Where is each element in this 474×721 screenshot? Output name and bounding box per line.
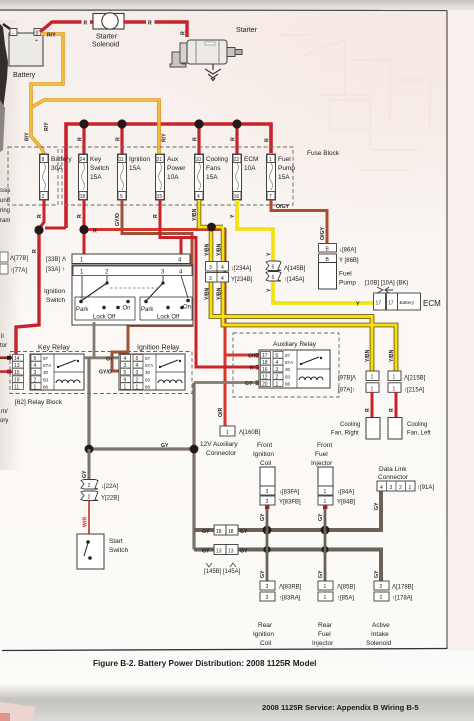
svg-text:Solenoid: Solenoid (366, 640, 392, 647)
svg-text:GY: GY (202, 529, 210, 535)
wire GY key relay 87 to ignition relay pin4 (84, 356, 119, 359)
svg-text:3: 3 (209, 276, 212, 282)
inline connectors 145B 145A hex (266, 261, 281, 271)
connectors 215B 215A (388, 371, 401, 381)
svg-text:21: 21 (157, 157, 163, 163)
svg-text:24: 24 (80, 157, 86, 163)
svg-text:Rear: Rear (258, 622, 273, 629)
svg-text:Fuse Block: Fuse Block (307, 150, 340, 157)
fuse F3 ignition 15A (118, 154, 151, 200)
wire GY down to 22 connector (88, 449, 91, 480)
fuel pump (319, 263, 337, 290)
svg-text:50: 50 (43, 378, 49, 383)
svg-text:Lock Off: Lock Off (157, 315, 180, 321)
svg-text:15: 15 (157, 194, 163, 200)
ignition switch left section (75, 276, 135, 321)
ignition switch linkage dashed (110, 287, 160, 289)
svg-text:ring: ring (0, 208, 10, 214)
svg-text:22: 22 (234, 157, 240, 163)
svg-text:18: 18 (80, 194, 86, 200)
svg-text:Battery: Battery (13, 72, 36, 79)
wire R key fuse output (83, 200, 86, 255)
left edge ghost text (0, 188, 10, 424)
svg-text:R: R (153, 214, 159, 218)
svg-text:GY: GY (82, 470, 88, 478)
svg-text:Λ[77B]: Λ[77B] (10, 256, 28, 262)
svg-text:O/GY: O/GY (320, 226, 326, 240)
svg-text:↑[145A]: ↑[145A] (284, 277, 305, 283)
svg-text:Λ[83RB]: Λ[83RB] (279, 585, 302, 591)
svg-text:3: 3 (136, 370, 139, 376)
svg-text:87A: 87A (285, 360, 294, 365)
connector 145B 145A pins 18 (202, 525, 248, 535)
relay block dashed box (10, 352, 192, 394)
svg-text:Key Relay: Key Relay (38, 345, 70, 352)
svg-text:R: R (37, 214, 43, 218)
wire R/BK into key relay pin14 (0, 356, 13, 359)
junction dot cooling wire (207, 223, 216, 232)
svg-text:Front: Front (317, 442, 332, 449)
fuse block dashed box battery (8, 147, 58, 205)
inline connectors 22A 22B hex (81, 480, 98, 490)
svg-text:30A: 30A (51, 165, 63, 172)
svg-text:Ignition: Ignition (44, 288, 65, 295)
svg-text:4: 4 (136, 363, 139, 369)
wire R battery to solenoid (40, 22, 93, 32)
svg-text:14: 14 (14, 356, 20, 362)
right page edge pink (448, 10, 474, 650)
svg-text:Y: Y (267, 252, 273, 256)
fuse F6 ecm 10A (233, 154, 259, 200)
svg-text:Intake: Intake (371, 631, 389, 638)
junction dots bus A (263, 526, 272, 535)
svg-text:und: und (0, 198, 10, 204)
svg-text:Switch: Switch (46, 297, 66, 304)
svg-text:Lock Off: Lock Off (93, 315, 116, 321)
svg-text:16: 16 (262, 367, 268, 373)
svg-text:87: 87 (285, 353, 291, 358)
svg-text:Ignition Relay: Ignition Relay (137, 345, 180, 352)
svg-text:Fuel: Fuel (318, 631, 331, 638)
svg-text:1: 1 (324, 499, 327, 505)
svg-text:Battery: Battery (51, 156, 72, 163)
svg-text:Y/BN: Y/BN (217, 287, 223, 300)
svg-text:2008 1125R Service: Appendix: 2008 1125R Service: Appendix B Wiring B-… (262, 703, 419, 712)
svg-text:Y[22B]: Y[22B] (101, 496, 119, 502)
key relay (13, 354, 85, 391)
svg-text:87A: 87A (43, 363, 52, 368)
svg-text:↑[85A]: ↑[85A] (337, 596, 354, 602)
svg-text:2: 2 (34, 378, 37, 384)
svg-text:Λ: Λ (62, 257, 66, 263)
svg-text:17: 17 (262, 353, 268, 359)
svg-text:9: 9 (124, 378, 127, 384)
wire GY/O ignition fuse to ignition relay (112, 200, 192, 371)
auxiliary relay (259, 350, 330, 388)
svg-text:GY: GY (240, 549, 248, 555)
svg-text:[10B] [10A] (BK): [10B] [10A] (BK) (365, 281, 408, 287)
svg-text:R/Y: R/Y (162, 133, 168, 142)
svg-text:[97A]↑: [97A]↑ (338, 387, 355, 393)
svg-text:Cooling: Cooling (407, 422, 427, 428)
svg-text:6: 6 (272, 265, 275, 271)
footer gradient band (0, 0, 1, 1)
svg-text:↓[86A]: ↓[86A] (339, 248, 356, 254)
svg-text:1: 1 (371, 386, 374, 392)
svg-text:5: 5 (120, 194, 123, 200)
svg-text:1: 1 (324, 584, 327, 590)
wire GY drop to rear ignition coil (266, 530, 269, 581)
svg-text:16: 16 (234, 194, 240, 200)
wire R aux fuse to 33B pin4 and auxiliary relay pin16 (160, 200, 259, 367)
fuse F5 cooling fans 15A (195, 154, 229, 200)
wire R/Y overlay crossing bus (157, 100, 161, 153)
svg-text:Ignition: Ignition (253, 631, 274, 638)
svg-text:R/Y: R/Y (25, 132, 31, 141)
fuse F4 aux power 10A (156, 154, 187, 200)
svg-text:Coil: Coil (260, 460, 272, 467)
svg-text:[33A]: [33A] (46, 267, 60, 273)
cooling fan left box (388, 418, 402, 440)
svg-text:Connector: Connector (206, 450, 237, 457)
svg-text:18: 18 (262, 360, 268, 366)
svg-text:19: 19 (14, 378, 20, 384)
svg-text:4: 4 (124, 356, 127, 362)
wire bus tie down to battery fuse junction (45, 227, 66, 230)
fuel pump connector 86A 86B (319, 244, 337, 253)
svg-text:Y/BN: Y/BN (205, 243, 211, 256)
svg-text:↑[83RA]: ↑[83RA] (279, 596, 301, 602)
svg-text:R: R (78, 137, 84, 141)
svg-text:Y[234B]: Y[234B] (231, 277, 253, 283)
svg-text:3: 3 (34, 370, 37, 376)
svg-text:On: On (123, 306, 131, 312)
svg-text:86: 86 (285, 382, 291, 387)
svg-text:18: 18 (216, 529, 222, 535)
wire O/R 12V aux connector (220, 426, 235, 436)
svg-text:R: R (93, 229, 97, 235)
svg-text:Figure B-2. Battery Power Dist: Figure B-2. Battery Power Distribution: … (93, 659, 316, 668)
svg-text:ory: ory (0, 418, 8, 424)
svg-text:ssis: ssis (0, 188, 10, 194)
svg-text:10A: 10A (167, 174, 179, 181)
diagram border right (446, 11, 448, 650)
svg-text:Ignition: Ignition (253, 451, 274, 458)
svg-text:↑: ↑ (62, 267, 65, 273)
svg-text:1: 1 (324, 595, 327, 601)
ghost bleedthrough marks (280, 35, 430, 170)
svg-text:R: R (231, 137, 237, 141)
rear fuel injector (318, 581, 333, 590)
svg-text:Injector: Injector (312, 640, 334, 647)
fuse F1 battery 30A (40, 154, 73, 200)
wire Y/BN pair below 234 connector to cooling fan connectors (211, 281, 396, 371)
svg-text:Y[83FB]: Y[83FB] (279, 500, 301, 506)
svg-text:86: 86 (145, 385, 151, 390)
svg-text:20: 20 (262, 382, 268, 388)
active intake solenoid (374, 581, 389, 590)
svg-text:↑[215A]: ↑[215A] (404, 387, 425, 393)
starter solenoid (93, 14, 124, 30)
svg-text:R/Y: R/Y (44, 122, 50, 131)
wire GY main vertical to 145 connector (192, 383, 195, 550)
svg-text:Start: Start (109, 538, 123, 545)
svg-text:5: 5 (136, 356, 139, 362)
wire R/Y branch to aux power fuse (32, 100, 159, 153)
svg-text:R: R (181, 31, 187, 35)
svg-text:2: 2 (380, 595, 383, 601)
svg-text:Front: Front (257, 442, 272, 449)
svg-text:17: 17 (376, 301, 382, 307)
svg-text:1: 1 (124, 385, 127, 391)
svg-text:1: 1 (34, 385, 37, 391)
svg-text:↓[84A]: ↓[84A] (337, 490, 354, 496)
wire GY bus A front (194, 490, 381, 530)
svg-text:3: 3 (266, 584, 269, 590)
svg-text:Active: Active (372, 622, 390, 629)
svg-text:Switch: Switch (109, 547, 129, 554)
svg-text:15A: 15A (206, 174, 218, 181)
svg-text:1: 1 (226, 430, 229, 436)
svg-text:12: 12 (262, 375, 268, 381)
svg-text:Cooling: Cooling (206, 156, 228, 163)
svg-text:R: R (193, 137, 199, 141)
svg-text:5: 5 (124, 370, 127, 376)
svg-text:3: 3 (124, 363, 127, 369)
svg-text:Switch: Switch (90, 165, 110, 172)
fuse F7 fuel pump 15A (267, 154, 296, 200)
svg-text:Fuel: Fuel (278, 156, 291, 163)
svg-text:11: 11 (14, 385, 19, 391)
svg-text:ll: ll (1, 334, 4, 340)
svg-text:ram: ram (0, 218, 10, 224)
svg-text:Ignition: Ignition (129, 156, 150, 163)
svg-text:tor: tor (0, 343, 7, 349)
svg-text:ECM: ECM (423, 299, 441, 308)
svg-text:GY: GY (202, 549, 210, 555)
bus drop key fuse (82, 124, 85, 154)
svg-text:15: 15 (14, 370, 20, 376)
bus drop cooling fuse (197, 124, 200, 154)
junction dot gy bus left (85, 445, 94, 454)
svg-text:R: R (265, 138, 271, 142)
wire GY drop to rear fuel injector (324, 530, 327, 581)
wire R to cooling fan left (395, 392, 398, 417)
svg-text:4: 4 (34, 363, 37, 369)
svg-text:1: 1 (393, 375, 396, 381)
svg-text:Λ[85B]: Λ[85B] (337, 585, 355, 591)
svg-text:1: 1 (269, 157, 272, 163)
svg-text:Y/BN: Y/BN (205, 287, 211, 300)
svg-text:Y/BN: Y/BN (217, 243, 223, 256)
svg-text:50: 50 (145, 378, 151, 383)
svg-text:10: 10 (196, 157, 202, 163)
svg-text:13: 13 (14, 363, 20, 369)
svg-text:87A: 87A (145, 363, 154, 368)
wire R key fuse branch to auxiliary relay pin17 and 160B (84, 230, 259, 356)
svg-text:O/R: O/R (218, 408, 224, 417)
wire battery negative lead (3, 24, 13, 31)
connector 234A 234B boxes (206, 262, 229, 272)
svg-text:Λ[215B]: Λ[215B] (404, 376, 426, 382)
svg-text:R: R (32, 249, 38, 253)
svg-text:Y/BN: Y/BN (365, 349, 371, 362)
svg-text:Pump: Pump (339, 280, 356, 287)
svg-text:R: R (77, 214, 83, 218)
wire GY bus B rear (194, 550, 381, 582)
wire R/Y battery to battery fuse (31, 34, 63, 154)
svg-text:86: 86 (43, 385, 49, 390)
svg-text:Battery: Battery (400, 300, 415, 305)
connector 145B 145A pins 13 (202, 545, 248, 555)
svg-text:[62] Relay Block: [62] Relay Block (15, 399, 63, 406)
svg-text:R: R (389, 408, 395, 412)
svg-text:5: 5 (34, 356, 37, 362)
svg-text:Injector: Injector (311, 460, 333, 467)
svg-text:GY: GY (245, 381, 253, 387)
svg-text:↑[178A]: ↑[178A] (392, 596, 413, 602)
svg-text:Connector: Connector (378, 474, 409, 481)
svg-text:Pump: Pump (278, 165, 295, 172)
svg-text:30: 30 (285, 367, 291, 372)
svg-text:1: 1 (371, 375, 374, 381)
svg-text:ECM: ECM (244, 156, 258, 163)
svg-text:Cooling: Cooling (340, 422, 360, 428)
junction dot key fuse output (79, 225, 88, 234)
svg-text:2: 2 (88, 495, 91, 501)
svg-text:3: 3 (266, 595, 269, 601)
connector 77B 77A (0, 252, 8, 262)
diagram border top (0, 9, 447, 12)
svg-text:R: R (84, 21, 88, 27)
svg-text:Starter: Starter (96, 34, 118, 41)
page background (0, 0, 1, 1)
svg-text:4: 4 (221, 276, 224, 282)
wire GY front injector to bus A (324, 505, 327, 530)
svg-text:Coil: Coil (260, 640, 272, 647)
svg-text:11: 11 (119, 157, 124, 163)
svg-text:15A: 15A (278, 174, 290, 181)
svg-text:Rear: Rear (318, 622, 333, 629)
svg-text:2: 2 (136, 378, 139, 384)
svg-text:1: 1 (324, 489, 327, 495)
wire GY relay area down to lower bus (89, 357, 194, 449)
wire O/GY fuel pump fuse to fuel pump (271, 200, 327, 244)
svg-text:Y: Y (230, 214, 236, 218)
wire R long battery feed to key relay pin30 (13, 229, 39, 369)
svg-text:2: 2 (399, 485, 402, 491)
svg-text:Power: Power (167, 165, 186, 172)
svg-text:GY: GY (161, 443, 169, 449)
svg-text:GY: GY (260, 570, 266, 578)
svg-text:1: 1 (393, 386, 396, 392)
svg-text:Y: Y (267, 288, 273, 292)
svg-text:R/Y: R/Y (47, 33, 56, 39)
svg-text:Park: Park (76, 307, 89, 313)
svg-text:R: R (250, 366, 254, 372)
svg-text:Y: Y (356, 302, 360, 308)
svg-text:4: 4 (221, 265, 224, 271)
svg-text:6: 6 (272, 275, 275, 281)
svg-text:Solenoid: Solenoid (92, 42, 119, 49)
svg-text:R: R (116, 137, 122, 141)
rear ignition coil (260, 581, 275, 590)
svg-text:87: 87 (43, 356, 49, 361)
svg-text:8: 8 (42, 157, 45, 163)
wire GY front coil to bus A (266, 505, 269, 530)
svg-text:2: 2 (42, 194, 45, 200)
start switch (77, 534, 104, 569)
svg-text:Y[84B]: Y[84B] (337, 500, 355, 506)
svg-text:Fans: Fans (206, 165, 221, 172)
auxiliary relay dashed box (233, 333, 339, 397)
svg-text:17: 17 (388, 301, 394, 307)
svg-text:Aux: Aux (167, 156, 179, 163)
svg-text:↓[83FA]: ↓[83FA] (279, 490, 300, 496)
svg-text:Data Link: Data Link (379, 466, 407, 473)
svg-text:O/GY: O/GY (276, 204, 290, 210)
svg-text:1: 1 (276, 382, 279, 388)
svg-text:2: 2 (276, 375, 279, 381)
svg-text:30: 30 (145, 370, 151, 375)
svg-text:Fuel: Fuel (339, 271, 352, 278)
svg-text:Fuel: Fuel (315, 451, 328, 458)
svg-text:GY: GY (240, 529, 248, 535)
wire Y/BN cooling fan connectors 97B 97A (366, 371, 379, 381)
junction dots on bus (79, 119, 88, 128)
wire W/R to start switch (88, 501, 90, 535)
junction dot battery fuse output (34, 225, 43, 234)
svg-text:30: 30 (43, 370, 49, 375)
wire Y/BN cooling fuse to 234 connector pair (199, 200, 223, 261)
svg-text:4: 4 (380, 485, 383, 491)
fuse F2 key switch 15A (79, 154, 110, 200)
svg-text:Y/BN: Y/BN (192, 208, 198, 221)
svg-text:12V Auxiliary: 12V Auxiliary (200, 441, 238, 448)
svg-text:↓[22A]: ↓[22A] (101, 484, 118, 490)
left page edge dark blob (0, 24, 8, 116)
wire R battery fuse output to junction (39, 200, 44, 229)
svg-text:GY: GY (318, 513, 324, 521)
ignition switch box (72, 265, 193, 325)
svg-text:3: 3 (390, 485, 393, 491)
ECM connector (374, 293, 386, 310)
svg-text:R: R (148, 21, 152, 27)
wire R solenoid to starter (124, 22, 187, 37)
wire R into key relay pin15 (0, 370, 13, 373)
svg-text:[33B]: [33B] (46, 257, 60, 263)
wire Y ecm fuse through 145 inline connectors to ECM (237, 200, 374, 303)
svg-text:4: 4 (197, 194, 200, 200)
svg-text:GY/O: GY/O (115, 213, 121, 226)
svg-text:Starter: Starter (236, 27, 258, 34)
wire GY aux relay pin20 (194, 381, 259, 384)
svg-text:1: 1 (409, 485, 412, 491)
ignition switch right section (140, 276, 192, 321)
svg-text:5: 5 (276, 353, 279, 359)
svg-text:↑[77A]: ↑[77A] (10, 268, 27, 274)
svg-text:Λ[160B]: Λ[160B] (239, 430, 261, 436)
junction dots bus B (263, 546, 270, 553)
svg-text:13: 13 (228, 548, 234, 554)
svg-text:3: 3 (266, 489, 269, 495)
svg-text:GY: GY (318, 570, 324, 578)
svg-text:GY/O: GY/O (99, 370, 112, 376)
svg-text:m/: m/ (1, 409, 8, 415)
svg-text:W/R: W/R (83, 517, 89, 527)
svg-text:[145B] [145A]: [145B] [145A] (204, 569, 241, 575)
ignition relay (119, 354, 185, 391)
